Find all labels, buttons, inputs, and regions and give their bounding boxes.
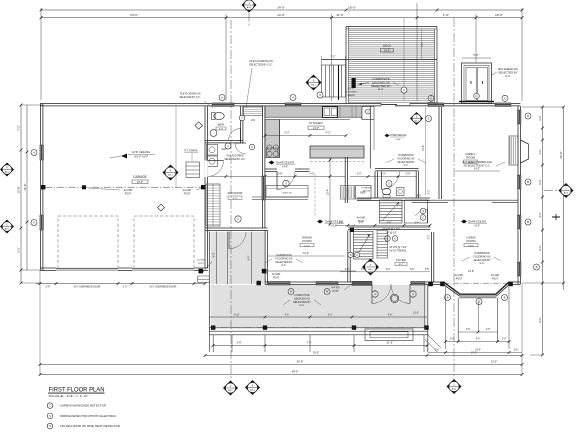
legend item 2 — [47, 413, 53, 419]
ref box — [356, 186, 372, 200]
island dashed line — [310, 161, 364, 163]
foyer north wall — [348, 226, 430, 228]
svg-text:A4.3: A4.3 — [250, 388, 255, 391]
closet by stairs — [405, 200, 428, 223]
svg-text:COMPOSITE: COMPOSITE — [294, 293, 310, 297]
section line x231 — [230, 20, 232, 381]
porch side strip hatch — [211, 232, 265, 234]
window marker front 2 — [324, 289, 330, 295]
svg-text:C: C — [6, 224, 8, 227]
svg-text:A: A — [33, 221, 35, 225]
svg-text:H: H — [49, 425, 51, 428]
svg-text:14′-8″: 14′-8″ — [422, 145, 425, 151]
svg-text:2′-6″: 2′-6″ — [466, 329, 471, 331]
garage small diamond — [158, 204, 165, 211]
bath sink — [210, 130, 217, 137]
svg-text:3′-0″: 3′-0″ — [429, 235, 431, 240]
window front wall foyer — [411, 281, 425, 285]
svg-text:POST: POST — [456, 278, 463, 280]
foyer west wall — [347, 230, 349, 282]
window marker circle left upper — [31, 150, 37, 156]
svg-text:4x4 WD: 4x4 WD — [455, 275, 464, 277]
kitchen sink — [323, 107, 338, 118]
svg-text:8′-2″: 8′-2″ — [538, 317, 542, 322]
bath east wall — [240, 106, 242, 143]
family dim line — [425, 107, 427, 195]
svg-text:3′-4″: 3′-4″ — [359, 223, 364, 225]
svg-text:5′-4″: 5′-4″ — [381, 173, 386, 176]
window left wall lower — [40, 215, 44, 230]
svg-text:5′-2″: 5′-2″ — [17, 247, 21, 253]
svg-text:MUD ROOM: MUD ROOM — [228, 191, 243, 195]
svg-text:5′-2″: 5′-2″ — [429, 190, 431, 195]
window left wall upper — [40, 145, 44, 160]
svg-text:5′-2″: 5′-2″ — [285, 132, 290, 135]
deck post black — [352, 78, 356, 88]
svg-text:7′-2″: 7′-2″ — [17, 125, 21, 131]
svg-text:9′-0″: 9′-0″ — [386, 269, 391, 271]
stair markers — [385, 236, 391, 242]
svg-text:7′-0″: 7′-0″ — [307, 342, 312, 345]
right exterior wall — [517, 106, 519, 284]
linen closet — [244, 107, 263, 116]
patio dim line 3 — [428, 352, 522, 354]
svg-text:13′-0″: 13′-0″ — [491, 361, 497, 364]
svg-text:FOYER: FOYER — [396, 258, 406, 262]
dimension line left vertical — [20, 105, 22, 283]
porch light hexagon — [390, 294, 398, 302]
svg-text:TILE FLOORING: TILE FLOORING — [226, 156, 244, 158]
dimension line right inner — [542, 107, 544, 355]
window marker top wall 3 — [428, 95, 434, 101]
svg-text:+9′-0″: +9′-0″ — [282, 167, 288, 169]
svg-text:8′-0″: 8′-0″ — [233, 198, 238, 200]
garage door dashed track 2 — [134, 216, 194, 268]
svg-text:CARBON MONOXIDE DETECTOR: CARBON MONOXIDE DETECTOR — [60, 404, 107, 408]
svg-text:13′-0″: 13′-0″ — [313, 127, 319, 130]
svg-text:3′-6″: 3′-6″ — [237, 342, 242, 345]
powder toilet — [382, 188, 391, 194]
extension line x417 — [416, 3, 418, 101]
svg-text:POST: POST — [198, 263, 205, 265]
svg-text:S: S — [350, 253, 352, 257]
svg-text:B: B — [536, 265, 538, 269]
keynote diamond breakfast top — [410, 112, 423, 125]
deck stair circle marker — [317, 92, 323, 98]
right extension ticks — [522, 106, 564, 108]
svg-text:SELECTED BY G.C.: SELECTED BY G.C. — [179, 97, 201, 99]
svg-text:4x4 WD: 4x4 WD — [491, 275, 500, 277]
svg-text:FIRST FLOOR PLAN: FIRST FLOOR PLAN — [49, 386, 105, 393]
svg-text:A4.2: A4.2 — [564, 191, 569, 194]
svg-text:7′-2″: 7′-2″ — [330, 55, 335, 59]
window marker right 3 — [525, 219, 531, 225]
section marker bottom 2 — [245, 380, 260, 395]
svg-text:9′x7′ OVERHEAD DOOR: 9′x7′ OVERHEAD DOOR — [150, 286, 177, 289]
svg-text:64′-0″: 64′-0″ — [292, 370, 299, 374]
svg-text:SELECTED BY: SELECTED BY — [293, 300, 311, 304]
svg-text:A4.3: A4.3 — [452, 387, 457, 390]
svg-text:+9′-0″: +9′-0″ — [331, 226, 337, 228]
chair ceiling note dining — [317, 220, 323, 224]
svg-text:3′-8″: 3′-8″ — [387, 223, 392, 225]
svg-text:FLOORING: FLOORING — [345, 91, 357, 93]
section marker bottom 1 — [223, 381, 238, 396]
kitchen dim line — [265, 135, 346, 137]
svg-text:A: A — [292, 96, 294, 100]
window W4 top wall family right — [495, 103, 511, 107]
svg-text:9′x7′ OVERHEAD DOOR: 9′x7′ OVERHEAD DOOR — [74, 286, 101, 289]
svg-text:14′-0″: 14′-0″ — [277, 5, 285, 9]
breakfast dim line — [350, 176, 417, 178]
living east-front corner wall — [512, 281, 521, 283]
svg-text:2′-6″: 2′-6″ — [435, 350, 440, 352]
svg-text:13′-0″: 13′-0″ — [468, 245, 474, 247]
kitchen south wall west seg — [265, 168, 277, 170]
garage post right — [201, 185, 205, 189]
svg-text:E: E — [428, 117, 430, 121]
dimension line top tier 1 (overall width) — [41, 9, 522, 11]
section line x454 — [453, 18, 455, 379]
svg-text:7′-2″: 7′-2″ — [421, 42, 424, 47]
dimension line top tier 2 — [41, 17, 522, 19]
front door leafs — [371, 284, 373, 303]
svg-text:CHAIR CEILING: CHAIR CEILING — [468, 221, 487, 224]
svg-text:LIN: LIN — [251, 119, 255, 122]
svg-text:29′-8″: 29′-8″ — [559, 151, 563, 158]
svg-text:13′-4″: 13′-4″ — [327, 189, 330, 195]
svg-text:G.C.: G.C. — [403, 164, 408, 167]
garage bottom dim line — [36, 283, 205, 285]
porch main hatch — [211, 285, 427, 287]
overhead door opening 2 — [132, 268, 194, 271]
svg-text:13′-0″: 13′-0″ — [475, 350, 481, 352]
svg-text:SMOKE DETECTOR (PHOTO ELECTRIC: SMOKE DETECTOR (PHOTO ELECTRIC) — [60, 414, 116, 418]
dining buffet cabinet — [266, 186, 308, 198]
kitchen counter inner edge — [279, 120, 281, 158]
svg-text:2′-6″: 2′-6″ — [46, 286, 51, 289]
mudroom bench — [206, 184, 220, 226]
svg-text:ROOM: ROOM — [303, 239, 313, 243]
bulkhead base — [459, 101, 494, 103]
powder sink — [397, 188, 405, 196]
bulkhead outline — [462, 63, 492, 104]
svg-text:P.T. STAIRS: P.T. STAIRS — [185, 150, 198, 153]
mudroom-dining opening — [262, 176, 266, 200]
bottom dim line full 1 — [40, 364, 522, 366]
side steps left — [198, 275, 210, 277]
family-living cased opening — [412, 199, 518, 201]
pt stairs garage — [186, 162, 200, 178]
garage-mudroom door — [205, 161, 208, 178]
deck stairs — [321, 65, 323, 97]
svg-text:G.C.: G.C. — [505, 74, 511, 78]
powder door — [381, 172, 383, 190]
bulkhead dim — [462, 57, 491, 59]
porch corner step diagonals — [425, 339, 438, 352]
front door markers — [372, 291, 378, 297]
patio dim line 2 — [446, 341, 510, 343]
sidelite front door — [352, 281, 372, 285]
mudroom east wall — [262, 106, 264, 228]
fireplace bump — [520, 140, 528, 163]
window marker front 1 — [288, 289, 294, 295]
deck outline — [345, 27, 347, 104]
kitchen island — [310, 146, 364, 158]
svg-text:8′-0″: 8′-0″ — [417, 196, 422, 198]
svg-text:2′-0″: 2′-0″ — [406, 173, 411, 176]
svg-text:KITCHEN: KITCHEN — [309, 121, 322, 125]
svg-text:UP 17R @ 7 3/4″: UP 17R @ 7 3/4″ — [389, 247, 407, 249]
mudroom door marker — [235, 216, 241, 222]
window right wall 2 — [517, 175, 521, 189]
svg-text:42′-8″: 42′-8″ — [297, 360, 304, 364]
counter step edge — [361, 117, 363, 119]
svg-text:C: C — [504, 96, 506, 100]
dimension line left inner — [26, 105, 28, 270]
deck mid band — [322, 59, 438, 61]
svg-text:4′-6″: 4′-6″ — [388, 314, 393, 316]
svg-text:ROOM: ROOM — [363, 191, 370, 193]
svg-text:3′-0″: 3′-0″ — [357, 173, 362, 176]
porch wall posts — [262, 269, 267, 274]
legend item 3 — [47, 423, 53, 429]
hall detector circles — [420, 208, 426, 214]
svg-text:A4.2: A4.2 — [228, 389, 233, 392]
mudroom bottom wall — [205, 227, 268, 229]
patio rails — [457, 298, 459, 342]
svg-text:13′-0″: 13′-0″ — [471, 352, 477, 355]
kitchen door marker — [283, 180, 289, 186]
svg-text:POWDER: POWDER — [362, 188, 372, 190]
window W3 top wall family — [428, 103, 444, 107]
window marker circle left lower — [31, 220, 37, 226]
garage post mid — [82, 185, 86, 189]
front steps box — [365, 329, 413, 341]
svg-text:POST: POST — [184, 192, 191, 195]
livingroom west wall — [430, 232, 432, 282]
svg-text:4′-0″: 4′-0″ — [310, 172, 315, 175]
laundry boxes — [207, 145, 218, 156]
svg-text:A: A — [221, 96, 223, 100]
section marker top — [242, 0, 257, 13]
svg-text:4′-2″: 4′-2″ — [538, 212, 542, 217]
porch roof line — [267, 270, 357, 272]
bottom dim line full 2 — [40, 374, 522, 376]
dining dim line upper — [210, 175, 345, 177]
window right wall 4 — [517, 262, 521, 276]
porch dim line 2 — [205, 355, 427, 357]
top exterior wall — [40, 103, 520, 105]
window marker top wall 4 — [502, 95, 508, 101]
left exterior wall (garage) — [40, 104, 42, 271]
window right wall 3 — [517, 215, 521, 229]
closet marker — [239, 115, 245, 121]
front wall dining (south) — [265, 281, 372, 283]
svg-text:G.C.: G.C. — [378, 87, 384, 91]
bath door marker — [225, 143, 231, 149]
garage centerline — [45, 186, 203, 188]
bay window — [442, 284, 510, 297]
svg-text:C: C — [394, 237, 396, 241]
porch step verticals — [208, 328, 210, 352]
chair ceiling note kitchen sw — [269, 161, 275, 165]
window front wall dining 1 — [268, 281, 290, 285]
svg-text:11′-6″: 11′-6″ — [336, 13, 343, 17]
porch side strip edges — [208, 232, 210, 331]
svg-text:BATH: BATH — [218, 124, 225, 127]
left extension ticks — [21, 104, 43, 106]
svg-text:C: C — [403, 88, 405, 92]
cooktop circles left — [267, 145, 272, 150]
deck board hatch — [349, 30, 435, 32]
svg-text:A4.1: A4.1 — [414, 119, 419, 122]
powder marker — [386, 181, 392, 187]
bath south wall — [205, 140, 243, 142]
pantry shelves — [341, 186, 355, 200]
patio center post line — [478, 302, 480, 332]
svg-text:B: B — [527, 114, 529, 118]
svg-text:+9′-0″: +9′-0″ — [395, 139, 401, 141]
svg-text:CHAIR CEILING: CHAIR CEILING — [276, 162, 295, 165]
svg-text:3′-0″: 3′-0″ — [328, 314, 333, 316]
powder room north wall — [375, 168, 419, 170]
porch right edge — [427, 285, 429, 353]
powder room west wall — [374, 172, 376, 199]
bottom dim line 42-8 — [427, 355, 522, 357]
svg-text:14′-2″: 14′-2″ — [474, 168, 480, 171]
foyer stairs lower run — [354, 232, 374, 260]
svg-text:8′-0″: 8′-0″ — [399, 264, 404, 266]
svg-text:GYP. CEILING: GYP. CEILING — [132, 150, 150, 154]
svg-text:POST: POST — [273, 276, 280, 279]
svg-text:3′-4″: 3′-4″ — [415, 223, 420, 225]
svg-text:S: S — [422, 209, 424, 213]
garage door dashed track 1 — [58, 216, 118, 268]
svg-text:+10′-0″ A.F.F.: +10′-0″ A.F.F. — [133, 155, 148, 159]
svg-text:A: A — [33, 151, 35, 155]
svg-text:16′-8″: 16′-8″ — [23, 183, 27, 190]
svg-text:W/ 10″ TREADS: W/ 10″ TREADS — [390, 249, 407, 252]
svg-text:POST: POST — [125, 192, 132, 195]
extension line right x522 — [521, 8, 523, 101]
svg-text:4′-0″: 4′-0″ — [285, 314, 290, 316]
svg-text:B: B — [527, 220, 529, 224]
stair base detector circles — [348, 252, 353, 257]
powder room east wall — [415, 172, 417, 199]
porch front edge — [209, 327, 427, 329]
svg-text:B: B — [478, 300, 480, 304]
overhead door opening 1 — [56, 268, 118, 271]
svg-text:6′-2″: 6′-2″ — [538, 245, 542, 250]
svg-text:A2.1: A2.1 — [168, 173, 173, 176]
svg-text:2′-8″: 2′-8″ — [345, 269, 350, 271]
matchline symbol right — [552, 216, 560, 218]
svg-text:13′-8″: 13′-8″ — [468, 270, 474, 273]
svg-text:SCALE: 1/4″ = 1′-0″: SCALE: 1/4″ = 1′-0″ — [49, 394, 89, 398]
garage right wall — [204, 106, 206, 268]
svg-text:12′-2″: 12′-2″ — [303, 252, 309, 255]
svg-text:DECKING AS: DECKING AS — [294, 296, 310, 300]
garage interior line — [175, 107, 177, 188]
deck door marker — [401, 87, 407, 93]
svg-text:5′-8″: 5′-8″ — [278, 172, 283, 175]
svg-text:12′-0″: 12′-0″ — [137, 181, 143, 184]
dining north wall lower — [252, 196, 308, 198]
svg-text:ROOM: ROOM — [467, 239, 477, 243]
svg-text:G.C.: G.C. — [479, 262, 484, 265]
svg-text:A4.1: A4.1 — [311, 83, 316, 86]
toilet — [214, 112, 224, 119]
svg-text:BUILT-IN: BUILT-IN — [283, 193, 292, 195]
kitchen width dim — [329, 158, 331, 226]
svg-text:4′-2″: 4′-2″ — [326, 132, 331, 135]
svg-text:C: C — [422, 216, 424, 220]
fireplace dim — [455, 170, 500, 172]
powder room wall south — [357, 197, 430, 199]
svg-text:C: C — [356, 253, 358, 257]
svg-text:11′-0″: 11′-0″ — [304, 245, 310, 247]
pantry wall — [344, 157, 346, 203]
window marker top wall 2 — [290, 95, 296, 101]
section marker right — [559, 183, 574, 198]
svg-text:SELECTED BY G.C.: SELECTED BY G.C. — [224, 159, 246, 161]
dining ceiling dashed line — [314, 174, 316, 216]
dining west wall — [264, 230, 266, 284]
extension line x226 — [225, 14, 227, 101]
svg-text:DN TO: DN TO — [348, 88, 355, 90]
svg-text:3′-0″: 3′-0″ — [361, 269, 366, 271]
svg-text:2′-0″: 2′-0″ — [450, 339, 455, 341]
svg-text:G.C.: G.C. — [299, 303, 305, 307]
window marker top wall 1 — [219, 95, 225, 101]
svg-text:A4.2: A4.2 — [247, 6, 252, 9]
window marker right 1 — [525, 113, 531, 119]
window marker right 4 — [534, 264, 540, 270]
front wall foyer-right segment — [410, 281, 445, 283]
svg-text:8′-0″: 8′-0″ — [213, 252, 216, 257]
svg-text:TILE FLOORING AS: TILE FLOORING AS — [249, 59, 273, 63]
hall door 1 — [235, 143, 246, 154]
bay circles — [445, 295, 451, 301]
stair run mid flight — [377, 231, 388, 259]
svg-text:GARAGE: GARAGE — [133, 175, 147, 179]
kitchen dw box — [362, 107, 374, 120]
svg-text:D: D — [475, 94, 477, 98]
svg-text:POST: POST — [332, 290, 339, 293]
kitchen counter top run — [265, 106, 362, 117]
svg-text:C: C — [49, 405, 51, 408]
kitchen door arc — [276, 172, 278, 190]
svg-text:20′-0″: 20′-0″ — [495, 13, 503, 17]
porch post centerline — [209, 327, 428, 329]
svg-text:4x4 WD: 4x4 WD — [197, 260, 205, 262]
slider extension line — [403, 18, 405, 101]
porch steps — [209, 330, 427, 332]
svg-text:2′-0″: 2′-0″ — [123, 286, 128, 289]
svg-text:13′-0″: 13′-0″ — [413, 313, 419, 315]
window front wall dining 2 — [316, 281, 338, 285]
window tag diamond left lower — [0, 220, 14, 234]
svg-text:10′-8″: 10′-8″ — [17, 186, 21, 193]
svg-text:19′-2″: 19′-2″ — [313, 352, 319, 355]
svg-text:135 DEG RATE OF RISE HEAT DETE: 135 DEG RATE OF RISE HEAT DETECTOR — [60, 424, 121, 428]
svg-text:DECK: DECK — [383, 44, 391, 48]
svg-text:2′-2″: 2′-2″ — [538, 115, 542, 120]
svg-text:4′-2″: 4′-2″ — [538, 149, 542, 154]
svg-text:GRADE: GRADE — [347, 94, 355, 97]
deck keynote diamond — [306, 75, 322, 91]
